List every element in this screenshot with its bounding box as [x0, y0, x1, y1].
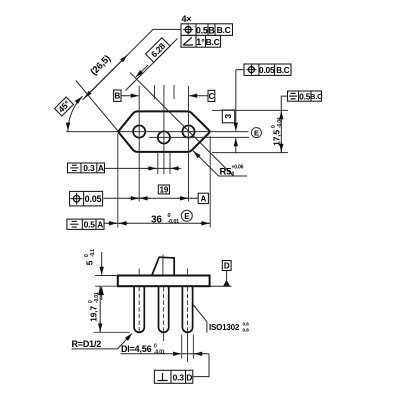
horizontal centerline main: [66, 131, 249, 133]
R5 leader: [193, 150, 248, 176]
R=D1/2 leader: [118, 334, 133, 349]
feature control frame position 0.5 B B.C / angularity 1 B.C: [181, 24, 233, 47]
construction line through left vertex: [76, 81, 118, 132]
vertical centerline center hole: [163, 85, 165, 174]
svg-text:-0.01: -0.01: [94, 292, 100, 303]
svg-text:0.5: 0.5: [196, 25, 208, 35]
svg-text:B.C: B.C: [206, 37, 220, 47]
pin 3 centerline: [187, 334, 189, 363]
dim 6.28 arrow: [136, 65, 148, 77]
center hole upper tangent extension left: [154, 85, 156, 99]
svg-text:17,5: 17,5: [272, 130, 282, 146]
dim 36 line and arrows: [104, 222, 210, 224]
datum label A box (on 19 dim): [198, 193, 208, 203]
svg-text:E: E: [184, 212, 190, 221]
svg-text:D: D: [186, 373, 192, 383]
svg-text:0.3: 0.3: [173, 373, 185, 383]
svg-text:R=D1/2: R=D1/2: [72, 339, 102, 349]
datum D box: [222, 261, 231, 287]
dim 5 text: [84, 249, 96, 266]
perpendicularity FCF leader: [193, 354, 209, 377]
FCF position 0.05: [70, 191, 103, 206]
FCF position 0.05 B.C: [236, 64, 291, 75]
center hole: [158, 131, 170, 143]
datum label B box: [114, 90, 139, 101]
svg-text:+0.06: +0.06: [232, 165, 244, 171]
pin 2 centerline: [163, 334, 165, 342]
dim 19 line: [104, 197, 199, 199]
svg-text:E: E: [254, 128, 259, 137]
svg-text:5: 5: [85, 260, 95, 265]
svg-text:19,7: 19,7: [89, 306, 99, 322]
dim 6.28 boxed text: [146, 38, 170, 62]
svg-text:A: A: [97, 220, 103, 229]
dim 19.7 text: [88, 292, 100, 322]
hexagonal flange outline: [119, 111, 210, 151]
svg-text:B: B: [115, 92, 121, 101]
dim 3 box: [222, 110, 234, 123]
svg-text:0.3: 0.3: [83, 163, 95, 173]
svg-text:B.C: B.C: [310, 92, 323, 101]
svg-text:19: 19: [160, 185, 169, 194]
svg-text:DI=4,56: DI=4,56: [121, 344, 152, 354]
center hole dia dim arrows: [105, 167, 182, 169]
svg-text:3: 3: [223, 114, 233, 119]
dim 5 extension lines: [95, 275, 118, 277]
svg-text:-0.01: -0.01: [168, 219, 180, 225]
svg-text:0.5: 0.5: [299, 91, 311, 101]
dim 3 arrow lines: [235, 70, 237, 131]
dim 26.5 arrows: [85, 55, 128, 98]
arc arrow top: [77, 97, 83, 103]
pin 3 edge extension lines: [181, 335, 183, 359]
svg-text:-0.1: -0.1: [90, 249, 96, 257]
dim 17.5 line with arrows: [280, 110, 282, 152]
svg-text:0.05: 0.05: [259, 65, 275, 75]
dim 17.5 text: [271, 117, 283, 146]
FCF symmetry 0.3 A: [68, 163, 105, 173]
vertical centerline right hole: [188, 86, 190, 202]
pin 1 axis dashed: [138, 287, 140, 333]
svg-text:0.6: 0.6: [243, 322, 250, 328]
center hole tangent extension right: [169, 152, 171, 174]
FCF symmetry 0.5 A: [67, 219, 104, 229]
FCF perpendicular 0.3 D: [154, 370, 192, 383]
dim 19 box: [158, 185, 169, 194]
svg-text:0.8: 0.8: [243, 328, 250, 334]
svg-text:-0.04: -0.04: [277, 117, 283, 128]
svg-text:A: A: [98, 163, 104, 173]
circled E after 36: [181, 210, 192, 221]
pin 2 axis dashed: [163, 287, 165, 333]
cap axis centerline: [162, 255, 164, 276]
circled E near part: [251, 128, 261, 138]
pin 3: [182, 286, 192, 332]
arc arrow bottom: [67, 124, 69, 131]
svg-text:1°: 1°: [196, 37, 205, 47]
pin 2: [159, 286, 169, 332]
mounting hole right: [182, 125, 194, 137]
svg-text:0: 0: [154, 343, 157, 349]
svg-text:D: D: [224, 262, 230, 271]
svg-text:0: 0: [232, 172, 235, 178]
45 deg boxed label: [55, 97, 74, 116]
svg-text:B.C: B.C: [217, 25, 231, 35]
pin tip extension line: [94, 331, 130, 333]
pin 1 axis tick above plate: [138, 269, 140, 276]
svg-text:B: B: [208, 25, 215, 35]
diagonal line through right hole: [130, 73, 233, 176]
mounting hole left: [133, 125, 145, 137]
dim 17.5 extension lines: [212, 109, 288, 111]
svg-text:0.5: 0.5: [84, 220, 96, 230]
dim 36 extension lines: [117, 134, 119, 228]
datum label C box: [189, 90, 215, 101]
svg-text:36: 36: [151, 214, 162, 225]
svg-text:-0.01: -0.01: [154, 350, 165, 356]
svg-text:R5: R5: [220, 167, 233, 178]
leader from FCF down-left (26.5 line): [83, 29, 182, 100]
svg-text:0.05: 0.05: [85, 194, 102, 204]
dim 6.28 line: [126, 39, 178, 91]
45 degree arc: [68, 96, 83, 131]
dim DI line: [121, 353, 182, 355]
dim 5 arrows: [101, 252, 103, 275]
pin 3 axis tick above plate: [187, 269, 189, 276]
svg-text:ISO1302: ISO1302: [209, 323, 240, 332]
pin 3 axis dashed: [187, 287, 189, 333]
horizontal centerline of center hole: [149, 136, 249, 138]
flange plate: [118, 276, 210, 287]
svg-text:4×: 4×: [182, 14, 192, 24]
center hole tangent extension left: [157, 152, 159, 174]
cap outline: [152, 257, 174, 275]
svg-text:A: A: [201, 194, 207, 203]
FCF symmetry 0.5 B.C: [281, 91, 323, 110]
plate bottom extension to datum D: [210, 285, 232, 287]
vertical centerline left hole: [138, 86, 140, 202]
svg-text:B.C: B.C: [276, 66, 290, 75]
svg-text:0: 0: [168, 213, 171, 219]
svg-text:(26,5): (26,5): [88, 53, 113, 78]
svg-text:C: C: [209, 92, 215, 101]
ISO1302 leader: [193, 305, 207, 333]
dim 19.7 line: [99, 286, 101, 332]
center hole upper tangent extension right: [173, 85, 175, 99]
pin 1: [134, 286, 144, 332]
